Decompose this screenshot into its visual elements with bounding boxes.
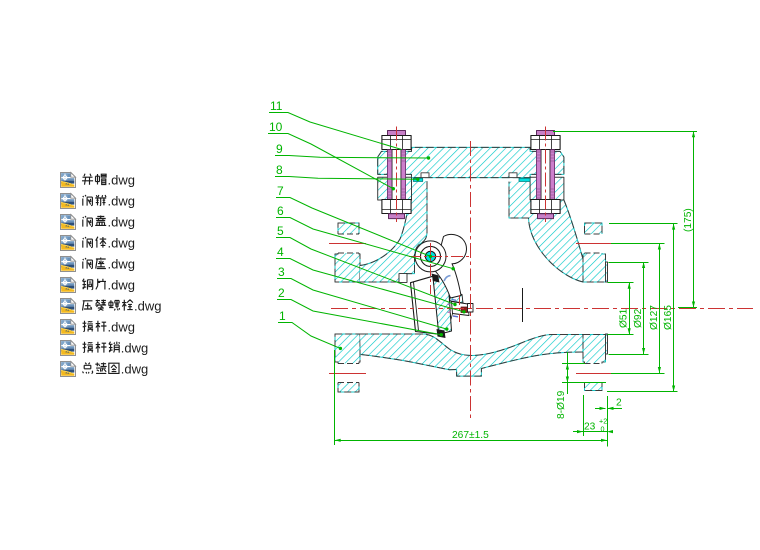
- right stud assembly: [531, 131, 560, 219]
- bore edge line (outlet opening): [522, 288, 524, 322]
- bonnet cap: [378, 147, 564, 177]
- svg-text:11: 11: [270, 99, 283, 113]
- svg-text:9: 9: [276, 142, 283, 156]
- bottom body wall band: [360, 334, 583, 376]
- disc nut hardware: [448, 292, 474, 320]
- hinge pin: [421, 246, 441, 266]
- svg-text:7: 7: [277, 184, 284, 198]
- upper-left body wall (flange hub to neck): [360, 181, 427, 282]
- blue link arc: [444, 276, 451, 281]
- svg-text:.dwg: .dwg: [108, 215, 135, 230]
- svg-text:23: 23: [584, 422, 596, 433]
- rocker arm and hinge bracket: [435, 234, 467, 298]
- svg-text:.dwg: .dwg: [121, 362, 148, 377]
- svg-text:.dwg: .dwg: [108, 236, 135, 251]
- svg-text:4: 4: [277, 245, 284, 259]
- svg-text:.dwg: .dwg: [108, 194, 135, 209]
- dim 2: [595, 408, 606, 410]
- dia165: [673, 224, 675, 392]
- svg-text:5: 5: [277, 224, 284, 238]
- dim 175: [693, 131, 695, 307]
- svg-text:.dwg: .dwg: [134, 299, 161, 314]
- svg-text:Ø127: Ø127: [649, 305, 660, 330]
- seat counterbore pocket: [399, 274, 407, 283]
- right flange body: [583, 223, 608, 391]
- svg-text:.dwg: .dwg: [108, 320, 135, 335]
- gasket right: [519, 178, 530, 181]
- left stud assembly: [382, 131, 411, 219]
- seat ring: [411, 276, 441, 334]
- cap spigot notches: [421, 173, 429, 178]
- svg-text:.dwg: .dwg: [108, 257, 135, 272]
- svg-text:6: 6: [277, 204, 284, 218]
- upper-right body wall (neck to outlet flange): [509, 182, 583, 282]
- svg-text:267±1.5: 267±1.5: [452, 430, 489, 441]
- extension lines: [553, 131, 697, 133]
- left flange body: [335, 223, 360, 392]
- svg-text:0: 0: [601, 425, 605, 434]
- body bolt ears: [378, 177, 564, 200]
- red centerlines: [329, 127, 753, 421]
- svg-text:3: 3: [278, 265, 285, 279]
- dim 8-dia19: [562, 363, 585, 365]
- svg-text:10: 10: [269, 120, 283, 134]
- svg-text:.dwg: .dwg: [108, 173, 135, 188]
- dim 23: [583, 395, 585, 436]
- svg-text:Ø165: Ø165: [663, 305, 674, 330]
- svg-text:.dwg: .dwg: [121, 341, 148, 356]
- dia51: [629, 283, 631, 335]
- svg-text:2: 2: [616, 398, 622, 409]
- rocker hub arcs: [415, 241, 446, 272]
- svg-text:Ø51: Ø51: [619, 308, 630, 328]
- svg-text:2: 2: [278, 286, 285, 300]
- svg-text:(175): (175): [683, 208, 694, 232]
- gasket left: [413, 178, 422, 181]
- svg-text:Ø92: Ø92: [633, 308, 644, 328]
- svg-text:1: 1: [279, 309, 286, 323]
- svg-text:8: 8: [276, 163, 283, 177]
- dia127: [659, 244, 661, 374]
- dim 267: [334, 350, 336, 445]
- disc: [432, 274, 452, 339]
- dia92: [643, 263, 645, 355]
- raised face: [606, 262, 608, 354]
- svg-text:8-Ø19: 8-Ø19: [556, 390, 567, 419]
- svg-text:.dwg: .dwg: [108, 278, 135, 293]
